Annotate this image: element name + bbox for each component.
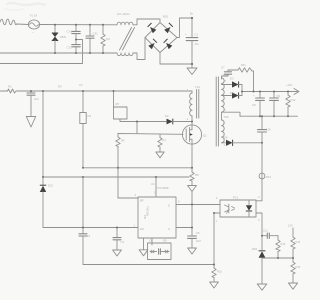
wire bottom rail: [83, 264, 214, 266]
svg-text:S: S: [168, 227, 170, 231]
svg-text:2n2: 2n2: [34, 97, 39, 101]
pin 4 top: [155, 177, 157, 197]
varistor RV1: [52, 25, 67, 53]
svg-text:R5: R5: [116, 102, 120, 106]
svg-text:LF1 40mH: LF1 40mH: [117, 12, 130, 16]
wire drain: [191, 116, 193, 125]
decorative scan smudge top-left (not a component): [4, 3, 46, 10]
ground gate: [156, 152, 164, 158]
diode D3: [222, 77, 243, 88]
resistor R10: [212, 265, 223, 283]
wire aux line down: [82, 177, 84, 228]
svg-text:R8: R8: [195, 173, 199, 177]
svg-text:+12V: +12V: [286, 83, 293, 87]
wire clamp line: [120, 121, 166, 123]
capacitor C1 bulk: [185, 12, 199, 65]
transformer T1 primary: [190, 85, 200, 118]
svg-text:R11: R11: [241, 63, 246, 67]
bridge rectifier BD1: [145, 15, 177, 53]
svg-text:C11: C11: [263, 229, 268, 233]
svg-text:C6: C6: [149, 239, 153, 243]
ground ZD2: [257, 284, 267, 290]
svg-text:CY2: CY2: [67, 46, 73, 50]
ground earth arrow: [26, 117, 35, 128]
wire FB pin: [176, 227, 192, 229]
capacitor C7 snubber: [221, 66, 238, 77]
capacitor C5 bypass: [188, 231, 201, 248]
svg-text:R13: R13: [266, 175, 271, 179]
svg-text:C9: C9: [277, 94, 281, 98]
svg-text:R12: R12: [291, 98, 296, 102]
resistor R11 snubber: [238, 63, 254, 92]
transformer T1 secondary lower: [222, 112, 229, 143]
ground bypass: [188, 248, 197, 254]
wire top AC rail: [40, 24, 117, 26]
resistor R2 inline: [8, 89, 193, 93]
wire opto emitter: [214, 212, 220, 214]
svg-text:10D9: 10D9: [60, 35, 67, 39]
node pin number labels: [134, 79, 261, 228]
capacitor CY2: [67, 45, 81, 53]
svg-text:R4: R4: [88, 114, 92, 118]
diode D4: [222, 91, 243, 99]
svg-text:12V: 12V: [288, 224, 293, 228]
svg-text:C1: C1: [195, 33, 199, 37]
svg-text:C7: C7: [221, 66, 225, 70]
wire VCC feed vertical: [42, 91, 44, 177]
resistor R7: [158, 134, 167, 152]
ground R10: [210, 282, 219, 288]
svg-text:10V: 10V: [196, 239, 201, 243]
capacitor C2: [27, 91, 39, 116]
wire bridge minus: [160, 53, 192, 65]
node output terminal: [286, 83, 299, 95]
svg-text:C4: C4: [87, 234, 91, 238]
transformer T1 secondary upper: [216, 73, 227, 146]
fuse F1: [28, 14, 39, 35]
svg-text:C5: C5: [196, 231, 200, 235]
capacitor C10: [258, 128, 271, 201]
wire rail B: [43, 176, 189, 178]
svg-text:ZD1: ZD1: [48, 184, 54, 188]
inductor LF1 common-mode choke: [117, 12, 135, 56]
wire bridge to B+ node: [177, 18, 192, 38]
resistor R6: [116, 134, 138, 199]
wire secondary top tap: [222, 76, 229, 79]
resistor R5 startup box: [114, 91, 128, 122]
wire node drop: [136, 122, 138, 134]
wire opto emitter drop: [213, 213, 215, 265]
svg-text:R3: R3: [58, 85, 62, 89]
wire opto anode: [256, 200, 262, 202]
svg-text:F1 2A: F1 2A: [30, 14, 37, 18]
diode D2: [165, 114, 192, 124]
zener ZD1: [40, 177, 54, 228]
wire center tap: [222, 112, 241, 116]
wire bottom AC rail: [0, 52, 117, 54]
transistor Q1 MOSFET: [182, 125, 207, 144]
wire rail A: [83, 167, 192, 169]
resistor R8 sense: [190, 168, 199, 186]
svg-text:CX1: CX1: [93, 32, 99, 36]
wire sense drop: [261, 116, 263, 129]
wire feedback line: [262, 257, 293, 259]
wire opto cathode: [256, 213, 262, 236]
wire choke to bridge left: [133, 38, 145, 60]
capacitor C11 comp: [262, 229, 278, 239]
svg-text:C2: C2: [79, 83, 83, 87]
optocoupler PC1: [220, 196, 256, 218]
resistor R16 divider bottom: [291, 258, 301, 283]
ground sense: [188, 186, 197, 205]
svg-text:EN: EN: [140, 227, 144, 231]
jumper link J1: [148, 238, 172, 260]
svg-text:Q1: Q1: [203, 134, 207, 138]
wire source: [191, 144, 193, 167]
resistor R1: [101, 25, 111, 53]
svg-text:BD1: BD1: [163, 15, 169, 19]
svg-text:D: D: [168, 204, 170, 208]
svg-text:CY1: CY1: [67, 30, 73, 34]
ground C3: [113, 250, 122, 256]
capacitor CX1: [67, 25, 81, 45]
svg-text:R6: R6: [121, 139, 125, 143]
svg-text:PC1: PC1: [233, 196, 239, 200]
svg-text:BP: BP: [140, 199, 144, 203]
wire gate rail: [118, 133, 183, 136]
wire choke to bridge top: [133, 19, 160, 25]
svg-text:PN: PN: [143, 215, 147, 219]
ground IC source pin: [139, 238, 148, 256]
svg-text:47u: 47u: [195, 42, 200, 46]
wire EN line: [43, 227, 138, 229]
resistor R15 divider top: [288, 224, 301, 259]
svg-text:D4: D4: [230, 91, 234, 95]
svg-text:R10: R10: [217, 270, 222, 274]
resistor R14: [276, 236, 286, 258]
zener ZD2: [252, 236, 265, 284]
capacitor C3: [113, 228, 124, 251]
wire earth return rail: [0, 40, 83, 64]
wire secondary 0V rail: [240, 115, 298, 117]
wire HV rail: [0, 90, 8, 92]
ground primary: [187, 64, 197, 75]
op-amp U1 controller IC: [138, 182, 176, 238]
svg-text:ZD2: ZD2: [252, 247, 258, 251]
svg-text:T1B: T1B: [224, 115, 229, 119]
capacitor C8 output: [252, 92, 264, 117]
resistor R13 bead: [259, 173, 271, 179]
svg-text:T1A: T1A: [195, 85, 200, 89]
node junction dots: [30, 17, 294, 266]
diode D5 aux: [222, 136, 263, 146]
wire bypass vertical: [191, 205, 193, 236]
svg-text:U1: U1: [151, 182, 155, 186]
capacitor C9 output: [270, 92, 281, 117]
svg-text:B+: B+: [190, 12, 194, 16]
svg-text:C3: C3: [121, 240, 125, 244]
wire VCC to opto: [176, 204, 220, 206]
svg-text:TNY266P: TNY266P: [157, 186, 169, 190]
svg-text:R2: R2: [8, 85, 12, 89]
resistor R4 box: [80, 113, 92, 169]
resistor R12 load: [286, 92, 296, 117]
capacitor CX2: [86, 25, 98, 53]
svg-text:R14: R14: [281, 242, 286, 246]
svg-text:D2: D2: [165, 114, 169, 118]
svg-text:D3: D3: [230, 77, 234, 81]
svg-text:C8: C8: [252, 103, 256, 107]
svg-text:R16: R16: [296, 265, 301, 269]
svg-text:R7: R7: [163, 139, 167, 143]
capacitor C4: [79, 228, 90, 265]
svg-text:D5: D5: [224, 136, 228, 140]
svg-text:R9: R9: [163, 239, 167, 243]
wire cathode join: [242, 85, 298, 96]
wire AC input lead: [0, 19, 29, 25]
wire aux branch vertical: [82, 91, 84, 113]
svg-text:C10: C10: [266, 128, 271, 132]
svg-text:R15: R15: [296, 240, 301, 244]
ground divider: [288, 283, 297, 289]
